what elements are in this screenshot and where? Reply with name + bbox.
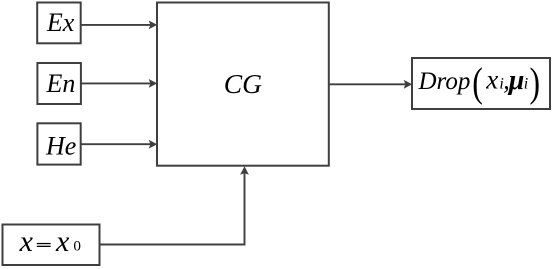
wire CG to Drop <box>329 80 412 89</box>
svg-text:Drop: Drop <box>418 68 471 95</box>
block En <box>37 63 81 104</box>
svg-text:He: He <box>45 131 76 160</box>
svg-text:0: 0 <box>73 238 81 255</box>
wire He to CG <box>81 140 157 149</box>
svg-text:): ) <box>530 60 541 106</box>
svg-text:CG: CG <box>224 68 262 99</box>
svg-text:Ex: Ex <box>46 8 75 37</box>
block Drop(xi,mui) <box>412 58 550 109</box>
svg-text:μ: μ <box>507 65 525 96</box>
block Ex <box>37 3 80 44</box>
wire x0 to CG bottom <box>100 166 249 244</box>
wire Ex to CG <box>81 21 157 30</box>
wire En to CG <box>81 79 157 88</box>
block CG <box>157 3 329 166</box>
svg-text:x: x <box>19 225 34 258</box>
svg-text:(: ( <box>472 60 483 106</box>
svg-text:x: x <box>55 225 70 258</box>
svg-text:x: x <box>485 65 498 95</box>
block x = x0 <box>3 225 100 266</box>
svg-text:En: En <box>46 69 76 98</box>
block He <box>37 123 80 164</box>
svg-text:i: i <box>524 76 528 93</box>
